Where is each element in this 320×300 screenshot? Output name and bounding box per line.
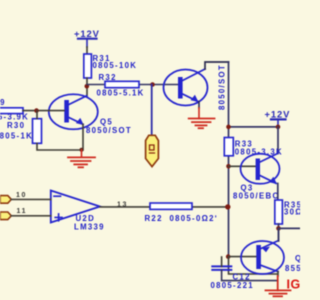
svg-text:+12V: +12V (265, 109, 291, 120)
svg-text:+12V: +12V (74, 28, 100, 39)
transistor Q5 (49, 94, 132, 135)
svg-text:8050/SOT: 8050/SOT (217, 64, 226, 110)
power +12V (left) (74, 28, 100, 47)
svg-text:0805-10K: 0805-10K (93, 61, 138, 70)
wire (37, 111, 81, 150)
node junction (226, 164, 231, 169)
svg-text:Q4: Q4 (295, 254, 300, 263)
node junction (276, 226, 281, 231)
svg-text:855: 855 (285, 264, 300, 273)
wire (11, 198, 51, 200)
wire (Q4 collector down) (277, 272, 279, 276)
wire (Q4 base) (229, 256, 257, 258)
wire (Q3 base) (229, 165, 256, 167)
transistor Q7 (top middle) (164, 64, 227, 110)
node junction (276, 125, 281, 130)
node junction (85, 84, 90, 89)
svg-text:IGN: IGN (287, 278, 301, 292)
wire (Q3 emitter) (277, 184, 279, 201)
resistor R30 (0, 119, 42, 144)
wire (11, 215, 51, 217)
wire (main vertical bus) (228, 62, 230, 257)
node junction (150, 82, 155, 87)
port (input 10) (0, 196, 11, 204)
resistor R33 (224, 138, 283, 157)
wire (Q4 emitter up) (278, 228, 280, 240)
resistor R22 (145, 203, 218, 223)
wire (23, 110, 64, 112)
transistor Q4 (PNP) (241, 241, 308, 275)
svg-text:0805-1K: 0805-1K (0, 132, 33, 141)
svg-text:0805-5.1K: 0805-5.1K (97, 88, 145, 97)
svg-text:0805-221: 0805-221 (211, 281, 254, 290)
node junction (34, 108, 39, 113)
wire (down to C12 net) (229, 257, 278, 274)
wire (278, 224, 280, 241)
node junction (Q4 base node) (226, 254, 231, 259)
node junction (226, 125, 231, 130)
svg-text:R32: R32 (99, 73, 117, 82)
svg-text:R30: R30 (7, 121, 25, 130)
svg-text:R29: R29 (0, 98, 6, 107)
node junction (225, 204, 230, 209)
svg-text:R22: R22 (145, 214, 163, 223)
port (vertical, middle) (146, 135, 159, 166)
capacitor C12 (211, 257, 278, 290)
port (input 11) (0, 212, 11, 220)
wire (151, 85, 153, 135)
svg-text:13: 13 (117, 202, 128, 209)
svg-text:LM339: LM339 (74, 222, 105, 231)
svg-text:10: 10 (16, 192, 27, 199)
resistor R32 (97, 73, 145, 97)
ground (under Q4, IGN net) (266, 276, 291, 296)
wire (exits right) (279, 227, 301, 229)
wire (205, 62, 229, 69)
node junction (emitter/R30/gnd) (80, 148, 84, 152)
svg-text:0805-3.9K: 0805-3.9K (0, 113, 29, 122)
resistor R35 (275, 200, 303, 224)
svg-text:0805-0Ω2ʹ: 0805-0Ω2ʹ (170, 214, 218, 223)
ground (under Q5) (68, 150, 95, 167)
svg-text:11: 11 (17, 208, 28, 215)
svg-text:8050/SOT: 8050/SOT (86, 126, 132, 135)
wire (86, 47, 88, 54)
wire (Q7 emitter to ground) (198, 102, 200, 109)
wire (comparator output) (100, 206, 229, 208)
wire (to Q3 collector) (277, 127, 279, 154)
svg-text:30Ω: 30Ω (284, 208, 300, 217)
wire (229, 126, 279, 128)
wire (86, 78, 88, 96)
power +12V (right) (265, 109, 291, 127)
ground (under Q7) (189, 108, 215, 128)
resistor R31 (84, 54, 137, 78)
resistor R29 (cut by left edge) (0, 98, 29, 122)
wire (Q5 emitter) (82, 124, 84, 150)
transistor Q3 (233, 154, 280, 201)
comparator U2D LM339 (51, 191, 105, 232)
wire (87, 84, 178, 86)
svg-text:8050/EBC: 8050/EBC (233, 192, 279, 201)
